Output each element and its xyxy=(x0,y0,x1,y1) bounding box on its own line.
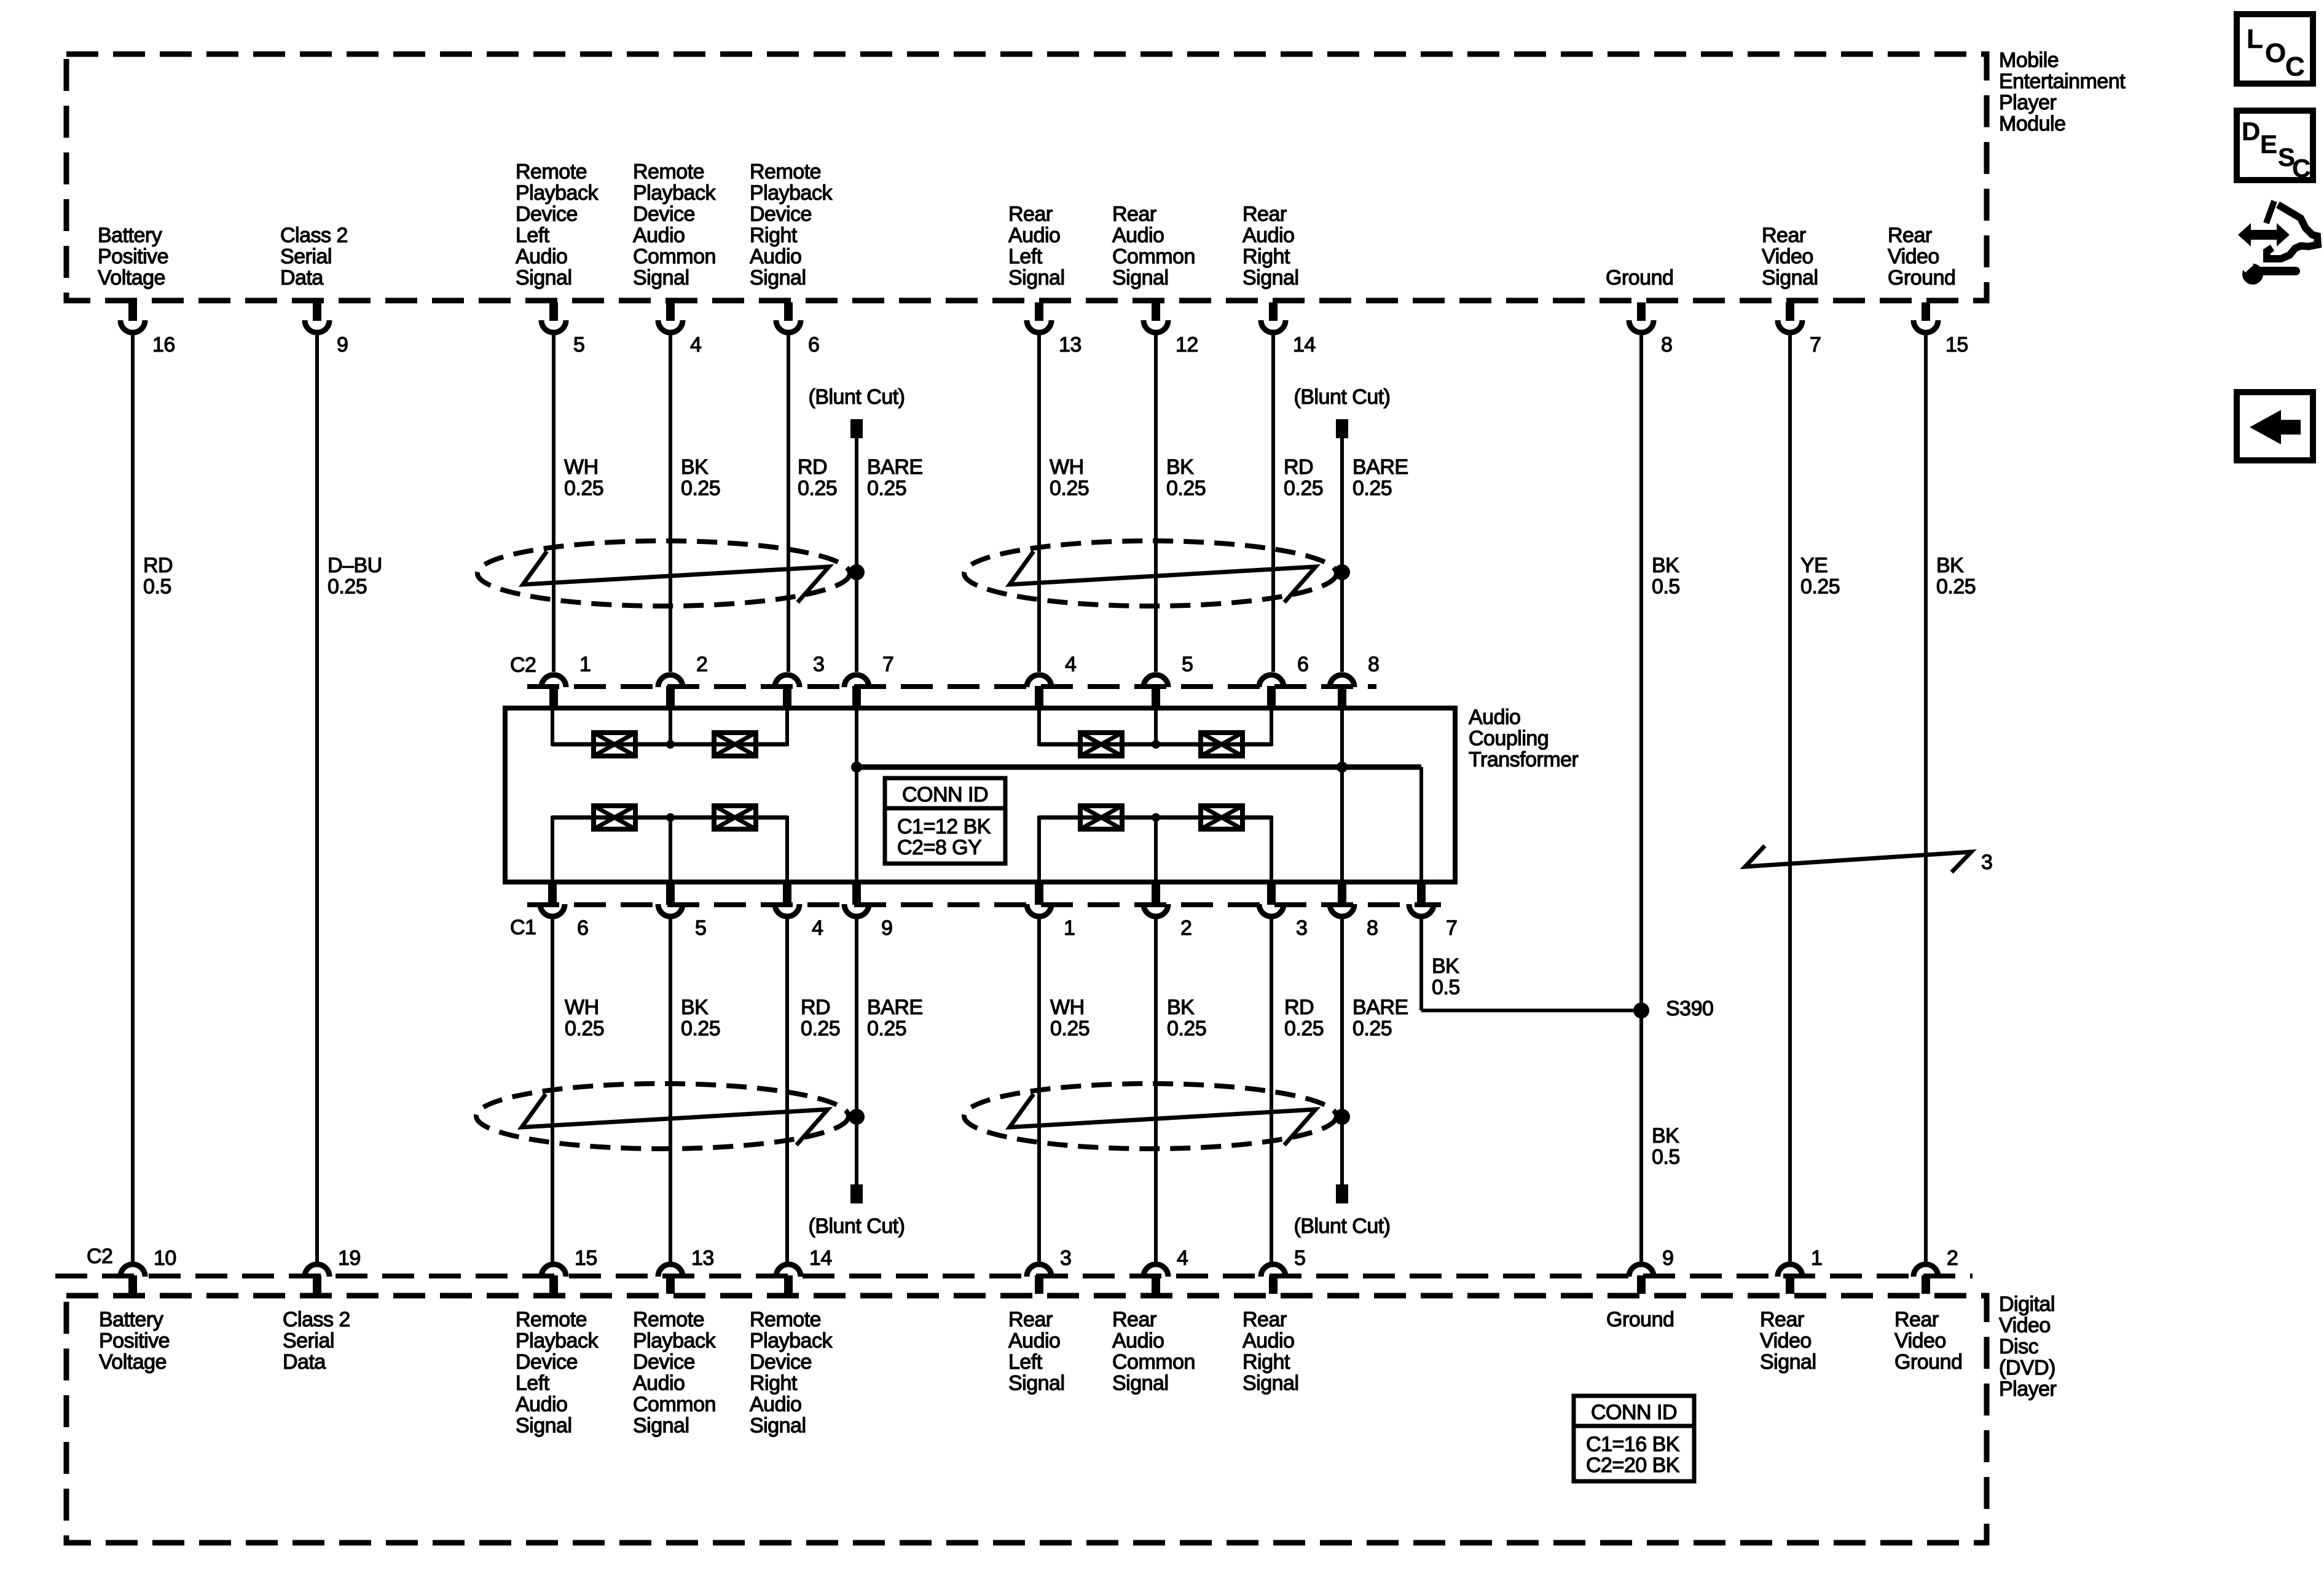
svg-text:BK: BK xyxy=(681,996,709,1019)
svg-text:Right: Right xyxy=(1242,245,1290,269)
svg-text:9: 9 xyxy=(881,916,892,940)
svg-text:0.25: 0.25 xyxy=(565,1017,604,1041)
svg-text:L: L xyxy=(2247,24,2263,54)
svg-text:3: 3 xyxy=(1981,851,1992,874)
svg-text:13: 13 xyxy=(691,1246,714,1270)
svg-text:6: 6 xyxy=(577,916,588,940)
svg-text:Right: Right xyxy=(750,1372,798,1395)
svg-text:0.25: 0.25 xyxy=(867,477,906,500)
svg-text:C1=16 BK: C1=16 BK xyxy=(1586,1433,1680,1456)
svg-text:Data: Data xyxy=(283,1350,326,1374)
svg-text:0.5: 0.5 xyxy=(1652,575,1680,599)
svg-text:Voltage: Voltage xyxy=(99,1350,167,1374)
svg-text:2: 2 xyxy=(696,653,707,676)
svg-text:Audio: Audio xyxy=(1242,1329,1294,1353)
svg-text:Ground: Ground xyxy=(1888,266,1955,289)
svg-text:4: 4 xyxy=(1177,1246,1188,1270)
svg-text:Signal: Signal xyxy=(1242,266,1299,289)
svg-text:13: 13 xyxy=(1059,333,1082,356)
svg-text:Signal: Signal xyxy=(750,266,806,289)
svg-text:Transformer: Transformer xyxy=(1469,748,1579,771)
svg-text:Data: Data xyxy=(280,266,323,289)
svg-text:Mobile: Mobile xyxy=(1999,49,2059,72)
svg-text:Signal: Signal xyxy=(750,1414,806,1438)
svg-text:Right: Right xyxy=(750,224,798,247)
svg-text:0.25: 0.25 xyxy=(681,477,720,500)
svg-text:0.25: 0.25 xyxy=(1352,1017,1392,1041)
svg-text:0.25: 0.25 xyxy=(1352,477,1392,500)
svg-text:5: 5 xyxy=(695,916,706,940)
svg-text:Signal: Signal xyxy=(1008,266,1065,289)
svg-text:D–BU: D–BU xyxy=(328,554,382,577)
svg-text:14: 14 xyxy=(809,1246,832,1270)
svg-text:Voltage: Voltage xyxy=(98,266,165,289)
svg-text:0.25: 0.25 xyxy=(1166,477,1206,500)
svg-text:Rear: Rear xyxy=(1112,203,1156,226)
svg-text:Ground: Ground xyxy=(1894,1350,1962,1374)
svg-text:Device: Device xyxy=(633,203,695,226)
svg-text:5: 5 xyxy=(1294,1246,1305,1270)
svg-text:0.25: 0.25 xyxy=(564,477,603,500)
svg-text:0.25: 0.25 xyxy=(1050,1017,1089,1041)
svg-text:(Blunt Cut): (Blunt Cut) xyxy=(809,1215,905,1238)
svg-text:Playback: Playback xyxy=(516,1329,599,1353)
svg-text:Common: Common xyxy=(1112,1350,1195,1374)
svg-text:Left: Left xyxy=(516,1372,550,1395)
svg-text:Rear: Rear xyxy=(1112,1308,1156,1331)
svg-text:0.25: 0.25 xyxy=(798,477,837,500)
svg-text:Playback: Playback xyxy=(750,181,833,205)
svg-text:WH: WH xyxy=(564,455,599,479)
svg-text:19: 19 xyxy=(338,1246,361,1270)
svg-text:Video: Video xyxy=(1888,245,1939,269)
svg-text:Audio: Audio xyxy=(750,245,801,269)
svg-text:(DVD): (DVD) xyxy=(1999,1357,2055,1380)
svg-text:4: 4 xyxy=(812,916,823,940)
svg-text:1: 1 xyxy=(1811,1246,1822,1270)
svg-text:Rear: Rear xyxy=(1762,224,1806,247)
svg-text:1: 1 xyxy=(579,653,591,676)
svg-text:Signal: Signal xyxy=(1112,266,1169,289)
svg-text:8: 8 xyxy=(1368,653,1379,676)
svg-text:Remote: Remote xyxy=(750,1308,821,1331)
svg-text:0.25: 0.25 xyxy=(1284,477,1323,500)
svg-text:BARE: BARE xyxy=(1352,996,1408,1019)
svg-text:BK: BK xyxy=(1432,955,1459,978)
svg-text:1: 1 xyxy=(1064,916,1075,940)
svg-text:3: 3 xyxy=(813,653,824,676)
svg-text:4: 4 xyxy=(690,333,701,356)
svg-text:Common: Common xyxy=(633,1393,716,1416)
svg-text:BK: BK xyxy=(681,455,709,479)
svg-text:CONN ID: CONN ID xyxy=(1591,1401,1677,1424)
svg-text:Rear: Rear xyxy=(1894,1308,1939,1331)
svg-text:Remote: Remote xyxy=(633,1308,704,1331)
svg-text:Signal: Signal xyxy=(633,1414,689,1438)
svg-text:Audio: Audio xyxy=(1008,1329,1060,1353)
svg-text:(Blunt Cut): (Blunt Cut) xyxy=(1294,385,1391,409)
svg-text:2: 2 xyxy=(1947,1246,1958,1270)
svg-text:Left: Left xyxy=(516,224,550,247)
svg-text:RD: RD xyxy=(798,455,827,479)
svg-text:0.25: 0.25 xyxy=(867,1017,906,1041)
svg-text:O: O xyxy=(2265,38,2286,68)
svg-text:BK: BK xyxy=(1167,996,1195,1019)
svg-text:Entertainment: Entertainment xyxy=(1999,70,2126,93)
svg-text:8: 8 xyxy=(1661,333,1672,356)
svg-text:Ground: Ground xyxy=(1606,1308,1674,1331)
svg-text:15: 15 xyxy=(1945,333,1968,356)
svg-text:0.25: 0.25 xyxy=(1050,477,1089,500)
svg-text:C2: C2 xyxy=(510,653,536,677)
svg-text:Right: Right xyxy=(1242,1350,1290,1374)
svg-text:Rear: Rear xyxy=(1888,224,1932,247)
svg-text:Module: Module xyxy=(1999,112,2066,136)
svg-text:RD: RD xyxy=(1284,455,1313,479)
svg-text:Audio: Audio xyxy=(516,245,567,269)
svg-text:14: 14 xyxy=(1293,333,1316,356)
svg-text:3: 3 xyxy=(1060,1246,1071,1270)
svg-text:BARE: BARE xyxy=(1352,455,1408,479)
svg-text:Signal: Signal xyxy=(1008,1372,1065,1395)
svg-text:Rear: Rear xyxy=(1242,203,1287,226)
svg-text:Rear: Rear xyxy=(1008,1308,1053,1331)
svg-text:2: 2 xyxy=(1180,916,1191,940)
svg-text:BK: BK xyxy=(1652,1124,1679,1148)
svg-text:9: 9 xyxy=(1662,1246,1673,1270)
svg-text:Playback: Playback xyxy=(750,1329,833,1353)
svg-text:Disc: Disc xyxy=(1999,1335,2039,1358)
svg-text:Video: Video xyxy=(1760,1329,1812,1353)
svg-text:BK: BK xyxy=(1166,455,1194,479)
svg-text:Signal: Signal xyxy=(516,266,572,289)
svg-text:Audio: Audio xyxy=(750,1393,801,1416)
svg-text:0.25: 0.25 xyxy=(1167,1017,1206,1041)
svg-text:Playback: Playback xyxy=(633,1329,716,1353)
svg-text:RD: RD xyxy=(1284,996,1314,1019)
svg-text:0.25: 0.25 xyxy=(328,575,367,599)
svg-text:Signal: Signal xyxy=(1112,1372,1169,1395)
svg-text:Video: Video xyxy=(1894,1329,1946,1353)
svg-text:Remote: Remote xyxy=(516,160,587,184)
svg-text:Audio: Audio xyxy=(1008,224,1060,247)
svg-text:WH: WH xyxy=(1050,455,1084,479)
svg-text:Remote: Remote xyxy=(750,160,821,184)
svg-text:5: 5 xyxy=(573,333,584,356)
svg-text:RD: RD xyxy=(143,554,173,577)
svg-text:6: 6 xyxy=(1297,653,1308,676)
svg-text:Device: Device xyxy=(633,1350,695,1374)
svg-text:C: C xyxy=(2292,154,2310,183)
svg-text:3: 3 xyxy=(1296,916,1307,940)
svg-text:Signal: Signal xyxy=(633,266,689,289)
svg-text:Left: Left xyxy=(1008,245,1043,269)
svg-text:Device: Device xyxy=(516,1350,578,1374)
svg-text:8: 8 xyxy=(1367,916,1378,940)
svg-text:Video: Video xyxy=(1762,245,1813,269)
svg-text:0.25: 0.25 xyxy=(801,1017,840,1041)
svg-text:RD: RD xyxy=(801,996,830,1019)
svg-text:Serial: Serial xyxy=(280,245,332,269)
svg-text:Signal: Signal xyxy=(1242,1372,1299,1395)
svg-text:Audio: Audio xyxy=(633,1372,685,1395)
svg-text:Player: Player xyxy=(1999,1377,2057,1401)
svg-text:BARE: BARE xyxy=(867,996,923,1019)
svg-text:Audio: Audio xyxy=(516,1393,567,1416)
svg-text:E: E xyxy=(2260,130,2277,159)
svg-text:0.5: 0.5 xyxy=(1432,976,1460,999)
svg-text:Class 2: Class 2 xyxy=(280,224,348,247)
svg-text:BK: BK xyxy=(1936,554,1964,577)
svg-text:Rear: Rear xyxy=(1760,1308,1804,1331)
svg-text:Positive: Positive xyxy=(98,245,168,269)
svg-text:Audio: Audio xyxy=(1242,224,1294,247)
svg-text:Signal: Signal xyxy=(1762,266,1818,289)
svg-text:9: 9 xyxy=(337,333,348,356)
svg-text:WH: WH xyxy=(1050,996,1085,1019)
svg-text:C2=20 BK: C2=20 BK xyxy=(1586,1454,1680,1477)
svg-text:Common: Common xyxy=(1112,245,1195,269)
svg-text:Rear: Rear xyxy=(1008,203,1053,226)
svg-text:0.25: 0.25 xyxy=(1284,1017,1324,1041)
svg-text:Playback: Playback xyxy=(516,181,599,205)
svg-text:BK: BK xyxy=(1652,554,1679,577)
svg-text:Serial: Serial xyxy=(283,1329,334,1353)
svg-text:7: 7 xyxy=(882,653,893,676)
svg-text:Video: Video xyxy=(1999,1314,2051,1337)
svg-text:Audio: Audio xyxy=(1469,706,1520,729)
svg-text:D: D xyxy=(2242,117,2260,146)
svg-text:6: 6 xyxy=(808,333,819,356)
svg-text:Remote: Remote xyxy=(633,160,704,184)
svg-text:C1=12 BK: C1=12 BK xyxy=(897,815,991,838)
svg-text:Positive: Positive xyxy=(99,1329,170,1353)
svg-text:WH: WH xyxy=(565,996,599,1019)
svg-text:BARE: BARE xyxy=(867,455,923,479)
svg-text:Coupling: Coupling xyxy=(1469,727,1549,750)
svg-text:C2=8 GY: C2=8 GY xyxy=(897,836,981,859)
svg-text:Player: Player xyxy=(1999,91,2057,114)
svg-text:(Blunt Cut): (Blunt Cut) xyxy=(1294,1215,1391,1238)
svg-text:(Blunt Cut): (Blunt Cut) xyxy=(809,385,905,409)
svg-text:Left: Left xyxy=(1008,1350,1043,1374)
svg-text:Battery: Battery xyxy=(98,224,162,247)
svg-text:Audio: Audio xyxy=(1112,224,1164,247)
svg-text:Class 2: Class 2 xyxy=(283,1308,350,1331)
svg-text:0.25: 0.25 xyxy=(1936,575,1976,599)
svg-text:Common: Common xyxy=(633,245,716,269)
svg-text:Audio: Audio xyxy=(1112,1329,1164,1353)
svg-text:5: 5 xyxy=(1182,653,1193,676)
svg-text:0.5: 0.5 xyxy=(1652,1146,1680,1169)
svg-text:Device: Device xyxy=(516,203,578,226)
svg-text:0.5: 0.5 xyxy=(143,575,171,599)
svg-text:CONN ID: CONN ID xyxy=(902,783,988,806)
svg-text:C2: C2 xyxy=(87,1245,112,1268)
svg-text:Audio: Audio xyxy=(633,224,685,247)
svg-text:YE: YE xyxy=(1800,554,1827,577)
svg-text:Signal: Signal xyxy=(1760,1350,1816,1374)
svg-text:S390: S390 xyxy=(1666,997,1713,1020)
svg-text:0.25: 0.25 xyxy=(681,1017,720,1041)
svg-text:Rear: Rear xyxy=(1242,1308,1287,1331)
svg-text:10: 10 xyxy=(154,1246,176,1270)
svg-text:Battery: Battery xyxy=(99,1308,163,1331)
svg-text:Signal: Signal xyxy=(516,1414,572,1438)
svg-text:Digital: Digital xyxy=(1999,1293,2055,1316)
svg-text:0.25: 0.25 xyxy=(1800,575,1840,599)
svg-text:Device: Device xyxy=(750,203,812,226)
svg-text:Device: Device xyxy=(750,1350,812,1374)
svg-text:16: 16 xyxy=(152,333,175,356)
svg-text:C: C xyxy=(2285,52,2304,82)
svg-text:4: 4 xyxy=(1065,653,1076,676)
svg-text:C1: C1 xyxy=(510,916,536,939)
svg-text:12: 12 xyxy=(1176,333,1198,356)
svg-text:7: 7 xyxy=(1810,333,1821,356)
svg-text:Playback: Playback xyxy=(633,181,716,205)
svg-text:Remote: Remote xyxy=(516,1308,587,1331)
svg-text:Ground: Ground xyxy=(1606,266,1673,289)
svg-text:7: 7 xyxy=(1446,916,1457,940)
svg-text:15: 15 xyxy=(575,1246,597,1270)
